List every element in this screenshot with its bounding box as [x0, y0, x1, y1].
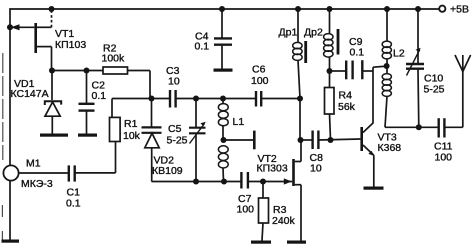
ground (M1) [2, 240, 20, 243]
node: VD1 junction [49, 68, 55, 74]
svg-text:100: 100 [237, 204, 255, 216]
capacitor C7 [237, 172, 255, 216]
svg-text:5-25: 5-25 [167, 135, 188, 147]
node: C10 bottom [416, 124, 422, 130]
node: VT1 gate junction [7, 24, 13, 30]
ground (C2) [78, 134, 97, 137]
node: R2/VD2 crossroads [149, 96, 155, 102]
capacitor C6 [251, 64, 269, 107]
wire: M1 to C1 [19, 172, 69, 174]
svg-text:КП103: КП103 [55, 39, 86, 51]
node: C8 right / R4 bottom [328, 137, 334, 143]
svg-text:100: 100 [251, 75, 269, 87]
node: L2 rail junction [384, 6, 390, 12]
svg-text:Др1: Др1 [279, 27, 298, 39]
svg-text:5-25: 5-25 [424, 84, 445, 96]
node: C5 top [193, 96, 199, 102]
varicap VD2 КВ109 [142, 99, 183, 182]
node: L1 tap [221, 137, 227, 143]
svg-text:10k: 10k [123, 130, 141, 142]
terminal +5V [439, 6, 445, 12]
svg-text:10: 10 [168, 76, 180, 88]
node: C10 rail junction [415, 6, 421, 12]
transistor VT1 (КП103 p-JFET) [10, 9, 86, 71]
wire: VT1 source to R2 [52, 70, 104, 72]
trimmer capacitor C10 [406, 9, 445, 127]
capacitor C1 [66, 165, 81, 209]
resistor R1 [75, 99, 141, 173]
ground (VT2 source) [287, 241, 306, 244]
wire: gate rail to VT2 [248, 181, 292, 183]
ground (VT3 emitter) [364, 187, 384, 190]
node: C5 bottom [193, 179, 199, 185]
svg-text:+5В: +5В [450, 4, 469, 16]
trimmer capacitor C5 [167, 99, 206, 182]
wire: mid rail continues [176, 98, 256, 100]
node: C4 rail junction [219, 6, 225, 12]
node: C8 left [298, 137, 304, 143]
inductor L2 (tapped) [382, 9, 405, 127]
capacitor C9 [330, 36, 374, 79]
microphone M1 МКЭ-3 [3, 158, 53, 240]
svg-text:0.1: 0.1 [350, 47, 365, 59]
svg-text:C6: C6 [252, 64, 266, 76]
svg-text:56k: 56k [338, 101, 356, 113]
transistor VT2 (КП303 n-JFET) [257, 140, 302, 241]
ground (C4) [214, 69, 233, 72]
capacitor C3 [166, 65, 180, 108]
svg-text:R4: R4 [339, 90, 353, 102]
node: C2 junction [84, 68, 90, 74]
capacitor C2 [79, 71, 107, 134]
svg-text:0.1: 0.1 [92, 90, 107, 102]
svg-text:0.1: 0.1 [66, 198, 81, 210]
transistor VT3 (К368 npn) [360, 123, 401, 187]
antenna [455, 55, 471, 127]
wire: left vertical (mic/gate line) [9, 8, 11, 166]
ground (VD1) [40, 134, 68, 137]
svg-text:К368: К368 [378, 142, 402, 154]
resistor R2 [102, 43, 151, 99]
svg-text:10: 10 [310, 163, 322, 175]
wire: +5V top rail [10, 8, 440, 10]
node: L1 bottom [221, 179, 227, 185]
capacitor C11 [434, 118, 463, 163]
svg-text:100k: 100k [102, 53, 126, 65]
svg-text:C5: C5 [168, 123, 182, 135]
svg-text:R1: R1 [124, 118, 138, 130]
choke Др1 [279, 9, 308, 99]
node: Др1 rail junction [295, 6, 301, 12]
svg-text:МКЭ-3: МКЭ-3 [21, 178, 53, 190]
wire: oscillator gate rail y=181.5 [152, 181, 242, 183]
wire: L1 tap stub [223, 139, 253, 141]
svg-text:100: 100 [435, 152, 453, 164]
wire: output line y=128 [385, 126, 438, 128]
capacitor C4 [195, 9, 233, 69]
svg-text:0.1: 0.1 [195, 41, 210, 53]
inductor L1 (tapped) [218, 99, 244, 182]
svg-text:КС147А: КС147А [11, 88, 49, 100]
node: L1 top [220, 96, 226, 102]
node: R3/gate junction [260, 179, 266, 185]
scan edge artifact left [2, 53, 4, 160]
resistor R3 [259, 182, 296, 241]
zener VD1 КС147А [11, 71, 62, 134]
node: L2 tap [384, 63, 390, 69]
wire: C9/L2-tap/VT3-collector node [372, 67, 374, 123]
resistor R4 [325, 71, 356, 140]
ground (R3) [251, 241, 271, 244]
node: Др2/C9/R4 junction [327, 68, 333, 74]
wire: drain column (Др1 bottom to VT2 drain) [299, 99, 301, 141]
svg-text:240k: 240k [272, 215, 296, 227]
svg-text:КВ109: КВ109 [152, 165, 183, 177]
svg-text:L2: L2 [393, 48, 405, 60]
svg-text:КП303: КП303 [257, 163, 288, 175]
svg-text:Др2: Др2 [304, 27, 323, 39]
coupling plate at L1 tap [253, 131, 256, 150]
wire: mid rail y=98.5 [112, 98, 170, 100]
node: drain column top [297, 96, 303, 102]
svg-text:L1: L1 [233, 116, 245, 128]
node: Др2 rail junction [327, 6, 333, 12]
wire: mid rail to drain column [262, 98, 300, 100]
node: rail/VT1 drain junction [49, 6, 55, 12]
capacitor C8 [301, 131, 360, 175]
choke Др2 [304, 9, 339, 71]
svg-text:М1: М1 [26, 158, 41, 170]
